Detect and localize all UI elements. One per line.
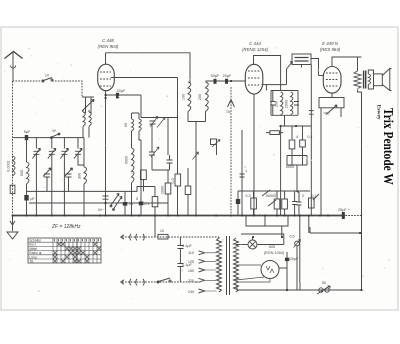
svg-text:2000: 2000 (284, 100, 288, 108)
svg-text:0.0001: 0.0001 (7, 160, 11, 172)
svg-text:20µF: 20µF (117, 89, 126, 93)
svg-text:150: 150 (188, 269, 194, 273)
svg-text:500: 500 (20, 170, 24, 176)
svg-text:50: 50 (129, 202, 133, 206)
svg-text:240: 240 (188, 290, 194, 294)
svg-text:10: 10 (45, 74, 49, 78)
svg-text:(RENS 1254): (RENS 1254) (242, 47, 269, 52)
svg-text:125: 125 (188, 260, 194, 264)
svg-text:300: 300 (78, 173, 82, 179)
svg-text:≈50: ≈50 (323, 112, 329, 116)
svg-text:20µF: 20µF (223, 74, 232, 78)
svg-text:220: 220 (188, 279, 194, 283)
svg-text:(RES 964): (RES 964) (320, 47, 341, 52)
svg-text:25µF: 25µF (290, 257, 299, 261)
svg-text:ZF = 128kHz: ZF = 128kHz (51, 224, 81, 230)
svg-text:200: 200 (198, 94, 202, 100)
svg-text:Trix Pentode W: Trix Pentode W (381, 108, 396, 185)
svg-text:5µF: 5µF (24, 130, 31, 134)
svg-text:10: 10 (160, 229, 164, 233)
svg-text:2: 2 (302, 194, 304, 198)
svg-text:1: 1 (245, 169, 247, 173)
svg-text:25µF +: 25µF + (338, 208, 351, 212)
svg-text:00: 00 (124, 123, 128, 127)
svg-text:E 449 N: E 449 N (322, 41, 339, 46)
svg-text:100: 100 (182, 94, 186, 100)
svg-text:0000: 0000 (125, 156, 129, 164)
svg-text:W: W (52, 129, 56, 133)
svg-text:7A: 7A (226, 110, 231, 114)
svg-text:C 444: C 444 (249, 41, 261, 46)
svg-text:4V~: 4V~ (98, 208, 106, 212)
svg-text:200: 200 (274, 101, 278, 107)
svg-text:5000: 5000 (286, 165, 294, 169)
svg-text:50µF: 50µF (211, 74, 220, 78)
svg-text:0.1: 0.1 (307, 135, 312, 139)
svg-text:0.3: 0.3 (245, 194, 250, 198)
svg-text:0.1: 0.1 (311, 194, 316, 198)
svg-text:0.5: 0.5 (289, 235, 294, 239)
svg-text:0.3: 0.3 (171, 178, 175, 183)
svg-text:(REN 904): (REN 904) (98, 44, 119, 49)
svg-text:≈0.1: ≈0.1 (142, 202, 149, 206)
svg-text:110: 110 (188, 251, 194, 255)
svg-text:4: 4 (296, 135, 298, 139)
svg-text:C 448: C 448 (102, 38, 114, 43)
svg-text:505: 505 (269, 245, 275, 249)
svg-text:50: 50 (322, 281, 326, 285)
svg-text:0.1µF: 0.1µF (182, 244, 192, 248)
svg-text:(RGN 1054): (RGN 1054) (264, 251, 285, 255)
svg-text:5: 5 (136, 197, 138, 201)
svg-text:µF: µF (30, 197, 35, 201)
svg-text:2000: 2000 (161, 186, 165, 194)
